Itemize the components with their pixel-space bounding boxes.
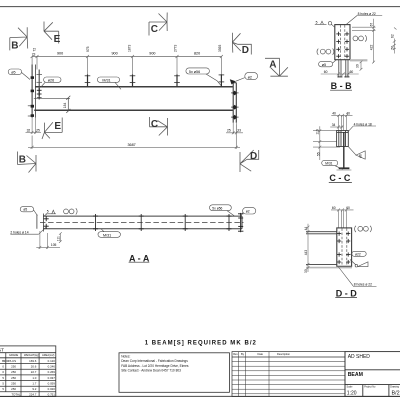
left plate weld blobs [31,76,34,117]
svg-text:B: B [11,40,18,51]
B-B weld circles left [317,49,334,55]
svg-text:4 holes ø 18: 4 holes ø 18 [354,122,372,126]
svg-text:AD SHED: AD SHED [348,354,371,360]
D-D plate rect [337,228,352,266]
svg-text:WEIGHT(kg): WEIGHT(kg) [24,353,39,357]
marker D mid [240,150,259,172]
A-A callout ø2 [241,208,256,217]
svg-text:72: 72 [33,48,37,52]
svg-text:B: B [2,359,4,363]
A-A weld circles symbol [64,208,78,214]
marker D top [232,33,251,55]
svg-text:Description: Description [277,352,291,356]
A-A right end bolt line [240,213,242,232]
B-B weld flag top-left [315,21,335,27]
svg-text:300PLUS: 300PLUS [4,359,16,363]
A-A callout ø5 [20,207,37,216]
svg-text:ø2: ø2 [246,210,250,214]
svg-text:32: 32 [27,128,31,132]
svg-text:C: C [151,119,158,130]
svg-text:169.6: 169.6 [29,359,37,363]
extension verticals from dim line [31,57,33,65]
svg-text:Site Contact - Andrew Dean 045: Site Contact - Andrew Dean 0457 710 803 [121,369,181,373]
svg-text:Date: Date [258,352,264,356]
C-C bottom flange [339,167,350,169]
fin plate bottom line [34,97,70,99]
callout oval 5x ø56 [186,68,221,86]
svg-text:900: 900 [149,52,155,56]
svg-text:250: 250 [11,365,16,369]
D-D weld circles top right [355,226,372,232]
svg-text:ø5: ø5 [11,71,15,75]
dim 32/25 bottom left [26,118,42,134]
svg-text:B/2: B/2 [392,391,400,397]
svg-text:2773: 2773 [174,44,178,52]
callout oval ø2 (right) [236,73,258,82]
marker A [265,58,288,76]
svg-text:Drawing: Drawing [390,385,399,388]
B-B hidden beam lines [340,25,344,60]
svg-text:A - A: A - A [129,253,150,263]
svg-text:5x ø56: 5x ø56 [189,70,200,74]
svg-text:D: D [242,45,249,56]
dim ticks [31,55,34,58]
C-C left dim chain [313,126,340,160]
D-D beam flange lines left [306,232,337,265]
C-C cleat assembly [337,131,349,147]
B-B end plate rect [335,25,350,60]
svg-text:1.7: 1.7 [32,382,36,386]
svg-text:250: 250 [11,387,16,391]
B-B grey bar [350,59,367,61]
A-A callout M/31 [98,229,120,238]
beam top flange [35,86,232,88]
svg-text:110: 110 [316,129,320,134]
svg-text:Scale: Scale [347,385,354,388]
svg-text:1:20: 1:20 [347,390,357,396]
B-B bolts (8) [336,32,349,59]
svg-text:ø5: ø5 [23,208,27,212]
C-C oval M/31 [322,160,343,169]
svg-text:443: 443 [304,250,308,256]
svg-text:1 BEAM[S] REQUIRED MK B/2: 1 BEAM[S] REQUIRED MK B/2 [145,340,257,346]
svg-text:ø22: ø22 [355,252,361,256]
svg-text:25: 25 [36,128,40,132]
B-B 30 dim [360,61,363,71]
svg-text:Notes:: Notes: [121,355,130,359]
svg-text:A: A [269,60,276,71]
A-A left bolts [44,216,49,228]
svg-text:TOTAL: TOTAL [11,392,20,396]
left end plate line 2 [34,65,36,118]
svg-text:0.037: 0.037 [48,376,56,380]
D-D bolts (8) [337,232,350,265]
svg-text:60: 60 [350,70,354,74]
svg-text:ø26: ø26 [48,79,54,83]
svg-text:1.0: 1.0 [32,376,36,380]
svg-text:820: 820 [194,52,200,56]
marker B top-left [10,27,28,50]
svg-text:C - C: C - C [329,173,350,183]
svg-text:60: 60 [324,70,328,74]
col1 fragments [2,359,4,391]
svg-text:E: E [54,34,61,45]
marker C top [149,13,167,36]
svg-text:M/31: M/31 [103,233,111,237]
svg-text:E: E [54,121,61,132]
svg-text:20.6: 20.6 [31,365,37,369]
right end plate [233,83,236,123]
B-B dim 60 60 [321,73,359,76]
svg-text:111: 111 [57,236,61,241]
svg-text:B: B [19,154,26,165]
C-C web [343,132,345,167]
svg-text:22.7: 22.7 [31,370,37,374]
A-A beam top edge [43,215,242,217]
marker C mid [150,117,168,136]
callout oval ø26 [41,77,62,88]
svg-text:250: 250 [11,376,16,380]
A-A weld flag 5 [44,210,56,216]
svg-text:0.246: 0.246 [48,365,56,369]
svg-text:250: 250 [11,382,16,386]
left plate weld ticks [28,105,31,107]
stiffener bolt symbols on top flange [88,74,222,86]
beam bottom flange [34,109,233,111]
svg-text:30: 30 [355,64,359,68]
svg-text:184: 184 [63,103,67,109]
svg-text:900: 900 [112,52,118,56]
D-D left dim chain [307,224,310,272]
B-B weld circles right [353,35,367,41]
svg-text:0.751: 0.751 [48,392,56,396]
svg-text:Rev: Rev [233,352,238,356]
B-B right dim chain [352,19,376,64]
svg-text:3593: 3593 [218,44,222,52]
page top border [0,6,400,8]
svg-text:M/31: M/31 [102,79,110,83]
svg-text:900: 900 [57,52,63,56]
material table headers [9,353,55,357]
D-D weld triangle [350,260,368,268]
svg-text:ST: ST [0,347,4,352]
svg-text:105: 105 [51,243,57,247]
svg-text:224.7: 224.7 [29,392,37,396]
svg-text:Dean Corp International - Fabr: Dean Corp International - Fabrication Dr… [121,359,188,363]
svg-text:9.2: 9.2 [32,387,36,391]
C-C dim 34 [330,126,343,129]
svg-text:422: 422 [369,45,373,51]
svg-text:ø5: ø5 [322,63,326,67]
svg-text:44: 44 [304,227,308,231]
D-D oval ø22 [348,251,366,256]
svg-text:D - D: D - D [336,288,357,298]
right plate bolts [232,91,237,120]
svg-text:0.269: 0.269 [48,370,56,374]
A-A callout 5x ø56 [210,205,235,216]
page bottom border [0,395,400,397]
svg-text:60: 60 [346,206,350,210]
marker E mid [42,118,62,140]
svg-text:5x ø56: 5x ø56 [212,206,222,210]
svg-text:40: 40 [332,111,336,115]
svg-text:0.059: 0.059 [48,382,56,386]
svg-text:BEAM: BEAM [348,372,363,378]
D-D hidden beam lines [342,228,347,266]
A-A beam bottom edge [43,228,242,230]
svg-text:1873: 1873 [128,44,132,52]
B-B below-plate web lines [339,60,348,78]
A-A dim 105 [36,231,60,249]
svg-text:30: 30 [304,269,308,273]
callout oval M/31 [97,77,121,89]
C-C top dim 40 40 [331,114,352,131]
svg-text:FAB Address - Lot 2/20 Hermita: FAB Address - Lot 2/20 Hermitage Drive, … [121,364,189,368]
svg-text:62: 62 [390,34,394,38]
left bolt ticks above flange [37,74,43,76]
A-A left end plate [36,214,38,228]
svg-text:ø6: ø6 [359,154,363,158]
svg-text:975: 975 [86,46,90,52]
svg-text:250: 250 [11,370,16,374]
svg-text:0.120: 0.120 [48,359,56,363]
material table data [4,359,56,397]
dim 25/33 bottom right [226,123,243,135]
svg-text:Project No: Project No [364,385,376,388]
svg-text:ø2: ø2 [248,75,252,79]
svg-text:60: 60 [332,206,336,210]
svg-text:8 holes ø 22: 8 holes ø 22 [354,283,372,287]
svg-text:67: 67 [369,23,373,27]
svg-text:AREA(m2): AREA(m2) [42,353,55,357]
svg-text:33: 33 [237,129,241,133]
marker B bottom-left [18,152,37,173]
svg-text:50: 50 [390,46,394,50]
B-B oval ø5 [319,60,337,67]
A-A right end line [241,216,243,229]
184 vertical dimension [67,98,69,111]
svg-text:55: 55 [316,152,320,156]
A-A centerline dashed [40,221,244,223]
svg-text:0.020: 0.020 [48,387,56,391]
svg-text:GRADE: GRADE [9,353,18,357]
overall dimension 3687 [28,125,240,149]
svg-text:B - B: B - B [331,81,352,91]
A-A dim 111 vertical [59,232,62,243]
C-C weld triangle right [349,147,366,159]
A-A bolt stiffener lines [96,214,230,231]
svg-text:M/31: M/31 [325,162,332,166]
callout oval ø5 (left) [8,69,30,80]
svg-text:5: 5 [316,21,318,25]
svg-text:D: D [250,151,257,162]
svg-text:5: 5 [47,210,49,214]
left end plate line 1 [31,65,33,118]
svg-text:3687: 3687 [128,143,136,147]
svg-text:73: 73 [32,52,36,56]
svg-text:C: C [151,24,158,35]
svg-text:40: 40 [346,111,350,115]
top running dimension line [31,55,223,75]
svg-text:2 holes ø 14: 2 holes ø 14 [10,230,28,234]
svg-text:25: 25 [227,129,231,133]
left bolt crosses below flange [37,88,42,98]
left bolt line [38,70,40,100]
svg-text:34: 34 [332,123,336,127]
marker E top [44,22,59,44]
D-D top dim 60 60 [331,208,354,228]
